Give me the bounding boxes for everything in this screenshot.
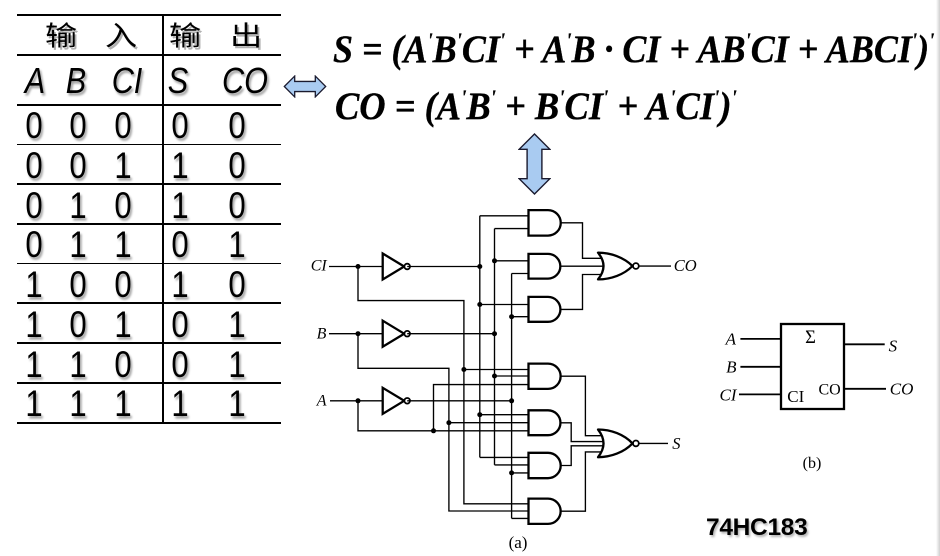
blue double-headed horizontal arrow	[282, 75, 328, 98]
AND gate U2	[529, 254, 561, 279]
svg-text:S: S	[672, 434, 680, 453]
svg-text:A: A	[316, 393, 327, 410]
truth table horizontal grid lines	[17, 14, 281, 16]
wire CO output	[638, 265, 671, 267]
table row 4: A=0 B=1 CI=1 | S=0 CO=1	[25, 224, 42, 266]
wire v6 to AND7 input 3	[512, 517, 529, 519]
wire AND U7 output to NOR U9 input 4	[561, 452, 603, 511]
wire A' from G3 to column v6	[407, 400, 511, 402]
svg-text:CO: CO	[890, 380, 914, 399]
AND gate U3	[529, 297, 561, 322]
wire AND U4 output to NOR U9 input 1	[561, 376, 603, 436]
wire v6 to AND3 input 2	[512, 316, 529, 318]
junction v2/AND5	[446, 420, 451, 425]
svg-text:CI: CI	[720, 386, 738, 405]
table row 8: A=1 B=1 CI=1 | S=1 CO=1	[25, 383, 42, 425]
AND gate U5	[529, 410, 561, 435]
wire v4 to AND3 input 1	[480, 304, 529, 306]
wire v4 to AND1 input 1	[480, 215, 529, 217]
74HC183 block symbol U10	[781, 324, 844, 409]
bubble of G3 for A	[404, 398, 410, 404]
table row 2: A=0 B=0 CI=1 | S=1 CO=0	[25, 145, 42, 187]
wire AND U1 output to NOR U8 input 1	[561, 223, 603, 258]
part number 74HC183	[706, 514, 807, 542]
table row 6: A=1 B=0 CI=1 | S=0 CO=1	[25, 304, 42, 346]
AND gate U1	[529, 210, 561, 236]
wire A bypass to AND5 input 3	[358, 401, 529, 431]
wire column v5 B'	[494, 229, 496, 465]
junction B node	[356, 331, 361, 336]
table row 5: A=1 B=0 CI=0 | S=1 CO=0	[25, 264, 42, 306]
svg-text:CI: CI	[787, 387, 804, 406]
wire A branch v1 to AND4 input 3	[434, 385, 529, 431]
wire AND U2 output to NOR U8 input 2	[561, 265, 604, 267]
inverter G2 for B (NOT gate)	[383, 321, 405, 347]
junction v4/CI'	[477, 264, 482, 269]
wire B input	[329, 333, 383, 335]
junction v6/AND6	[509, 470, 514, 475]
wire v2 to AND5 input 2	[449, 422, 529, 424]
AND gate U7	[529, 499, 561, 524]
NOR gate U9 (S) (OR shape)	[598, 430, 633, 458]
svg-text:A: A	[725, 329, 737, 348]
truth table column divider line	[162, 15, 164, 423]
svg-text:CI: CI	[311, 258, 328, 275]
wire v5 to AND2 input 1	[495, 260, 529, 262]
right edge gray strip	[936, 0, 940, 556]
wire v4 to AND6 input 1	[480, 456, 529, 458]
wire A input of U10	[740, 338, 781, 340]
wire v5 to AND1 input 2	[495, 228, 529, 230]
wire AND U3 output to NOR U8 input 3	[561, 275, 603, 310]
wire B bypass to column v2 and AND7 input 2	[358, 334, 529, 511]
junction v4/AND5	[477, 412, 482, 417]
wire column v4 CI'	[479, 216, 481, 458]
wire AND U6 output to NOR U9 input 3	[561, 446, 604, 466]
bubble of U8 (CO)	[633, 263, 639, 269]
junction CI node	[356, 264, 361, 269]
junction v4/AND3	[477, 302, 482, 307]
svg-text:(a): (a)	[509, 533, 528, 552]
header row: 输入 / 输出	[41, 13, 79, 51]
inverter G1 for CI (NOT gate)	[383, 254, 405, 280]
junction v5/B'	[492, 331, 497, 336]
svg-text:CO: CO	[819, 382, 841, 399]
table row 7: A=1 B=1 CI=0 | S=0 CO=1	[25, 344, 42, 386]
wire S output	[638, 442, 668, 444]
wire B' from G2 to column v5	[407, 333, 494, 335]
AND gate U4	[529, 364, 561, 389]
junction v6/A'	[509, 398, 514, 403]
junction v3/AND4	[461, 367, 466, 372]
wire v6 to AND6 input 3	[512, 472, 529, 474]
wire CO output of U10	[844, 388, 886, 390]
wire CI' from G1 to column v4	[407, 266, 480, 268]
table row 3: A=0 B=1 CI=0 | S=1 CO=0	[25, 185, 42, 227]
AND gate U6	[529, 453, 561, 478]
wire A input	[330, 400, 383, 402]
wire column v6 A'	[511, 274, 513, 519]
boolean equation for CO	[335, 84, 737, 129]
wire v3 to AND4 input 1	[464, 369, 529, 371]
junction v5/AND2	[492, 258, 497, 263]
svg-text:B: B	[317, 326, 327, 343]
wire v6 to AND2 input 2	[512, 273, 529, 275]
column header labels A B CI S CO	[25, 60, 45, 102]
junction v6/AND3	[509, 314, 514, 319]
bubble of U9 (S)	[633, 441, 639, 447]
wire CI input	[329, 266, 383, 268]
junction A node	[356, 398, 361, 403]
wire v5 to AND6 input 2	[495, 464, 529, 466]
wire v4 to AND5 input 1	[480, 414, 529, 416]
wire CI bypass to column v3 and AND7 input 1	[358, 267, 529, 504]
bubble of G1 for CI	[404, 264, 410, 270]
wire B input of U10	[740, 366, 781, 368]
blue double-headed vertical arrow	[518, 133, 551, 195]
svg-text:(b): (b)	[803, 455, 822, 472]
svg-text:B: B	[726, 358, 737, 377]
wire v5 to AND4 input 2	[495, 375, 529, 377]
inverter G3 for A (NOT gate)	[383, 388, 405, 414]
bubble of G2 for B	[404, 331, 410, 337]
wire AND U5 output to NOR U9 input 2	[561, 423, 604, 442]
svg-text:Σ: Σ	[805, 328, 816, 348]
wire S output of U10	[844, 343, 885, 345]
wire CI input of U10	[739, 393, 781, 395]
svg-text:S: S	[889, 337, 898, 356]
boolean equation for S	[333, 27, 934, 72]
junction v1/A-branch	[431, 428, 436, 433]
table row 1: A=0 B=0 CI=0 | S=0 CO=0	[25, 105, 42, 147]
junction v5/AND4	[492, 374, 497, 379]
svg-text:CO: CO	[674, 256, 697, 275]
NOR gate U8 (CO) (OR shape)	[598, 253, 633, 280]
